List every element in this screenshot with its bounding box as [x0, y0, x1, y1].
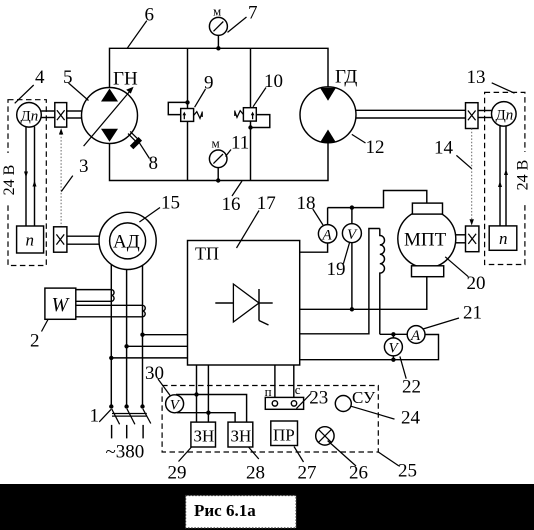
leader 2	[42, 320, 49, 332]
motor МПТ (20)	[398, 203, 456, 277]
svg-text:15: 15	[161, 193, 180, 214]
leader 17	[237, 211, 260, 249]
leader 11	[226, 150, 232, 157]
svg-text:м: м	[213, 4, 221, 19]
knife switch 1 pole a	[109, 404, 119, 438]
leader 12	[352, 134, 366, 143]
shaft coupling to ГН	[67, 111, 82, 118]
svg-text:Дп: Дп	[496, 108, 514, 124]
label 24 В (right, rotated)	[514, 152, 532, 202]
coupling (ГН shaft, left upper)	[55, 103, 67, 128]
svg-text:10: 10	[264, 71, 283, 92]
wire ammeter 18 up to armature node	[327, 208, 329, 225]
svg-text:13: 13	[467, 67, 486, 88]
relief valve 9	[168, 100, 202, 121]
wire voltmeter 30 bottom link	[177, 413, 235, 422]
leader 16	[232, 181, 242, 196]
knife switch 1 pole c	[140, 404, 151, 438]
bottom caption bar	[0, 484, 534, 530]
svg-text:29: 29	[168, 463, 187, 484]
svg-text:27: 27	[298, 463, 317, 484]
block ЗН 29	[191, 422, 216, 447]
wire pair Дп to n (left)	[24, 127, 37, 227]
svg-text:21: 21	[463, 303, 482, 324]
lever 8 of pump	[128, 131, 150, 158]
thyristor symbol inside ТП	[215, 284, 272, 325]
ammeter А 18	[318, 225, 336, 244]
motor АД (15)	[99, 212, 156, 269]
indicator n box (right)	[489, 226, 517, 250]
coupling (ГД shaft, right upper)	[466, 103, 479, 129]
leader 5	[69, 83, 89, 101]
leader 9	[195, 89, 206, 107]
current coil on phase 1	[111, 290, 114, 302]
tacho generator Дп (left)	[17, 103, 42, 128]
svg-text:24: 24	[401, 408, 421, 429]
wire: phase line 2	[126, 270, 128, 406]
wire ТП to field coil	[300, 229, 380, 334]
lamp 26	[316, 427, 334, 445]
svg-text:А: А	[410, 328, 421, 344]
svg-text:n: n	[26, 231, 35, 250]
svg-text:1: 1	[90, 406, 100, 427]
svg-text:4: 4	[35, 67, 45, 88]
wire ТП to switch contact с	[293, 365, 295, 397]
svg-text:Рис 6.1а: Рис 6.1а	[194, 501, 256, 520]
leader 21	[423, 318, 459, 329]
svg-text:7: 7	[248, 3, 258, 24]
leader 10	[253, 88, 266, 107]
thyristor converter ТП (17)	[188, 241, 300, 366]
svg-text:2: 2	[30, 331, 40, 352]
label 24 В (left, rotated)	[1, 153, 18, 202]
wire: internal vertical line of valve 10	[250, 48, 252, 180]
wire W voltage lead bottom	[76, 316, 143, 318]
leader 25	[378, 452, 399, 466]
junction phase 1 tap	[109, 356, 113, 360]
svg-text:ЗН: ЗН	[231, 427, 252, 446]
junction voltmeter 22 bottom	[391, 358, 395, 362]
wire voltmeter 30 top link	[176, 395, 247, 423]
svg-text:28: 28	[246, 463, 265, 484]
wire: phase line 1	[110, 264, 112, 405]
wire W voltage lead top	[76, 304, 143, 306]
svg-text:20: 20	[467, 273, 486, 294]
coupling (АД shaft, left lower)	[54, 227, 67, 252]
leader 22	[400, 356, 406, 378]
wire ТП to ЗН 29	[196, 365, 198, 422]
wire ТП to МПТ armature bottom	[300, 277, 427, 310]
tacho generator Дп (right)	[492, 102, 517, 127]
svg-text:А: А	[322, 228, 333, 244]
junction: gauge 7 on top pipe	[216, 46, 220, 50]
svg-text:16: 16	[222, 194, 241, 215]
leader 14	[456, 155, 471, 168]
svg-text:СУ: СУ	[352, 388, 376, 407]
leader 18	[313, 209, 323, 225]
wire ТП to switch contact п	[274, 365, 276, 397]
block ПР 27	[271, 421, 298, 446]
leader 15	[139, 208, 160, 223]
shaft Дп to coupling (left)	[41, 111, 55, 118]
svg-text:ЗН: ЗН	[194, 427, 215, 446]
wire ammeter 21 return to ТП	[300, 335, 439, 360]
leader 13	[492, 83, 515, 93]
leader 20	[445, 257, 468, 277]
knife switch 1 link bar	[112, 414, 147, 417]
junction V30 top	[194, 392, 198, 396]
ammeter А 21	[407, 326, 425, 344]
voltmeter V 22	[384, 334, 402, 359]
svg-text:Дп: Дп	[21, 109, 39, 125]
svg-text:n: n	[499, 229, 508, 248]
svg-text:23: 23	[309, 388, 328, 409]
leader 26	[328, 441, 356, 466]
svg-text:30: 30	[145, 363, 164, 384]
svg-text:19: 19	[327, 259, 346, 280]
svg-text:12: 12	[366, 137, 385, 158]
svg-text:18: 18	[297, 193, 316, 214]
svg-text:МПТ: МПТ	[404, 229, 447, 250]
wire W current lead top	[76, 289, 112, 291]
wire ТП to ЗН 28	[207, 365, 209, 422]
svg-text:17: 17	[257, 193, 276, 214]
button СУ 24	[335, 396, 351, 412]
svg-text:м: м	[212, 136, 220, 151]
motor ГД (12)	[300, 87, 356, 143]
wire: phase line 3	[142, 265, 144, 406]
leader 19	[343, 242, 349, 264]
junction voltmeter 22 top	[391, 332, 395, 336]
control unit box СУ (dashed, 25)	[162, 386, 378, 453]
leader 23	[296, 394, 311, 409]
leader 3	[61, 176, 73, 192]
wire phase 2 to ТП	[127, 345, 188, 347]
sensor box 13 (dashed, right)	[485, 92, 525, 264]
voltmeter V 30	[166, 395, 184, 414]
wire coil to ammeter 21	[380, 333, 407, 335]
shaft МПТ to coupling	[456, 235, 466, 243]
svg-text:ТП: ТП	[195, 244, 219, 264]
gauge М 11	[209, 150, 227, 181]
svg-text:с: с	[295, 382, 301, 397]
leader 6	[127, 21, 147, 49]
field coil ОВ of МПТ	[380, 229, 385, 335]
relief valve 10	[235, 108, 270, 130]
svg-text:ГН: ГН	[113, 69, 138, 90]
svg-text:9: 9	[204, 73, 214, 94]
junction: gauge 11 on bottom pipe	[216, 178, 220, 182]
leader 24	[351, 406, 394, 419]
svg-text:ПР: ПР	[273, 426, 295, 445]
shaft coupling to Дп (right)	[478, 111, 492, 118]
indicator n box (left)	[17, 226, 44, 253]
gauge М 7	[209, 17, 227, 48]
svg-text:22: 22	[402, 377, 421, 398]
leader 4	[15, 85, 34, 103]
knife switch 1 pole b	[124, 404, 134, 438]
caption box Рис 6.1а	[186, 496, 297, 529]
shaft ГД to coupling (right)	[356, 110, 466, 118]
svg-text:5: 5	[63, 67, 73, 88]
svg-text:24 В: 24 В	[1, 165, 18, 196]
svg-text:26: 26	[349, 463, 368, 484]
leader 27	[294, 447, 304, 463]
wire: internal vertical line of valve 9	[187, 48, 189, 180]
belt line 3 (dotted, with up arrow)	[59, 128, 63, 227]
svg-text:W: W	[52, 294, 71, 316]
wire W current lead bottom	[76, 300, 112, 302]
leader 28	[249, 447, 259, 459]
svg-text:11: 11	[231, 133, 249, 154]
hydraulic circuit frame box 6	[110, 48, 329, 180]
svg-text:3: 3	[79, 156, 89, 177]
current coil on phase 3	[143, 305, 146, 317]
junction V30 bottom	[206, 411, 210, 415]
pump ГН (5)	[82, 87, 138, 146]
svg-text:~380: ~380	[106, 442, 145, 463]
belt line 14 (dotted, with down arrow)	[470, 129, 474, 226]
wire phase 3 to ТП	[143, 334, 188, 336]
junction phase 2 tap	[124, 344, 128, 348]
switch п-с 23	[265, 397, 303, 409]
svg-text:8: 8	[149, 153, 159, 174]
svg-text:25: 25	[398, 461, 417, 482]
junction voltmeter 19 top	[350, 205, 354, 209]
svg-text:ГД: ГД	[335, 67, 357, 88]
shaft coupling to АД	[67, 236, 99, 244]
wire armature top bus	[328, 191, 427, 208]
svg-text:14: 14	[434, 138, 454, 159]
sensor box 4 (dashed, left)	[8, 100, 46, 266]
coupling (МПТ shaft, right lower)	[466, 226, 479, 252]
wire pair Дп to n (right)	[498, 126, 508, 226]
wire ТП to ammeter 18	[300, 243, 328, 252]
leader 7	[228, 17, 247, 32]
leader 1	[99, 409, 111, 422]
junction voltmeter 19 bottom	[350, 307, 354, 311]
leader 30	[158, 379, 171, 396]
svg-text:АД: АД	[113, 231, 140, 252]
leader 29	[179, 447, 192, 462]
voltmeter V 19	[342, 208, 361, 310]
wire phase 1 to ТП	[111, 357, 187, 359]
junction phase 3 tap	[140, 333, 144, 337]
block ЗН 28	[228, 422, 253, 447]
svg-text:24 В: 24 В	[515, 160, 532, 191]
wattmeter W (2)	[45, 288, 76, 319]
svg-text:6: 6	[145, 5, 155, 26]
